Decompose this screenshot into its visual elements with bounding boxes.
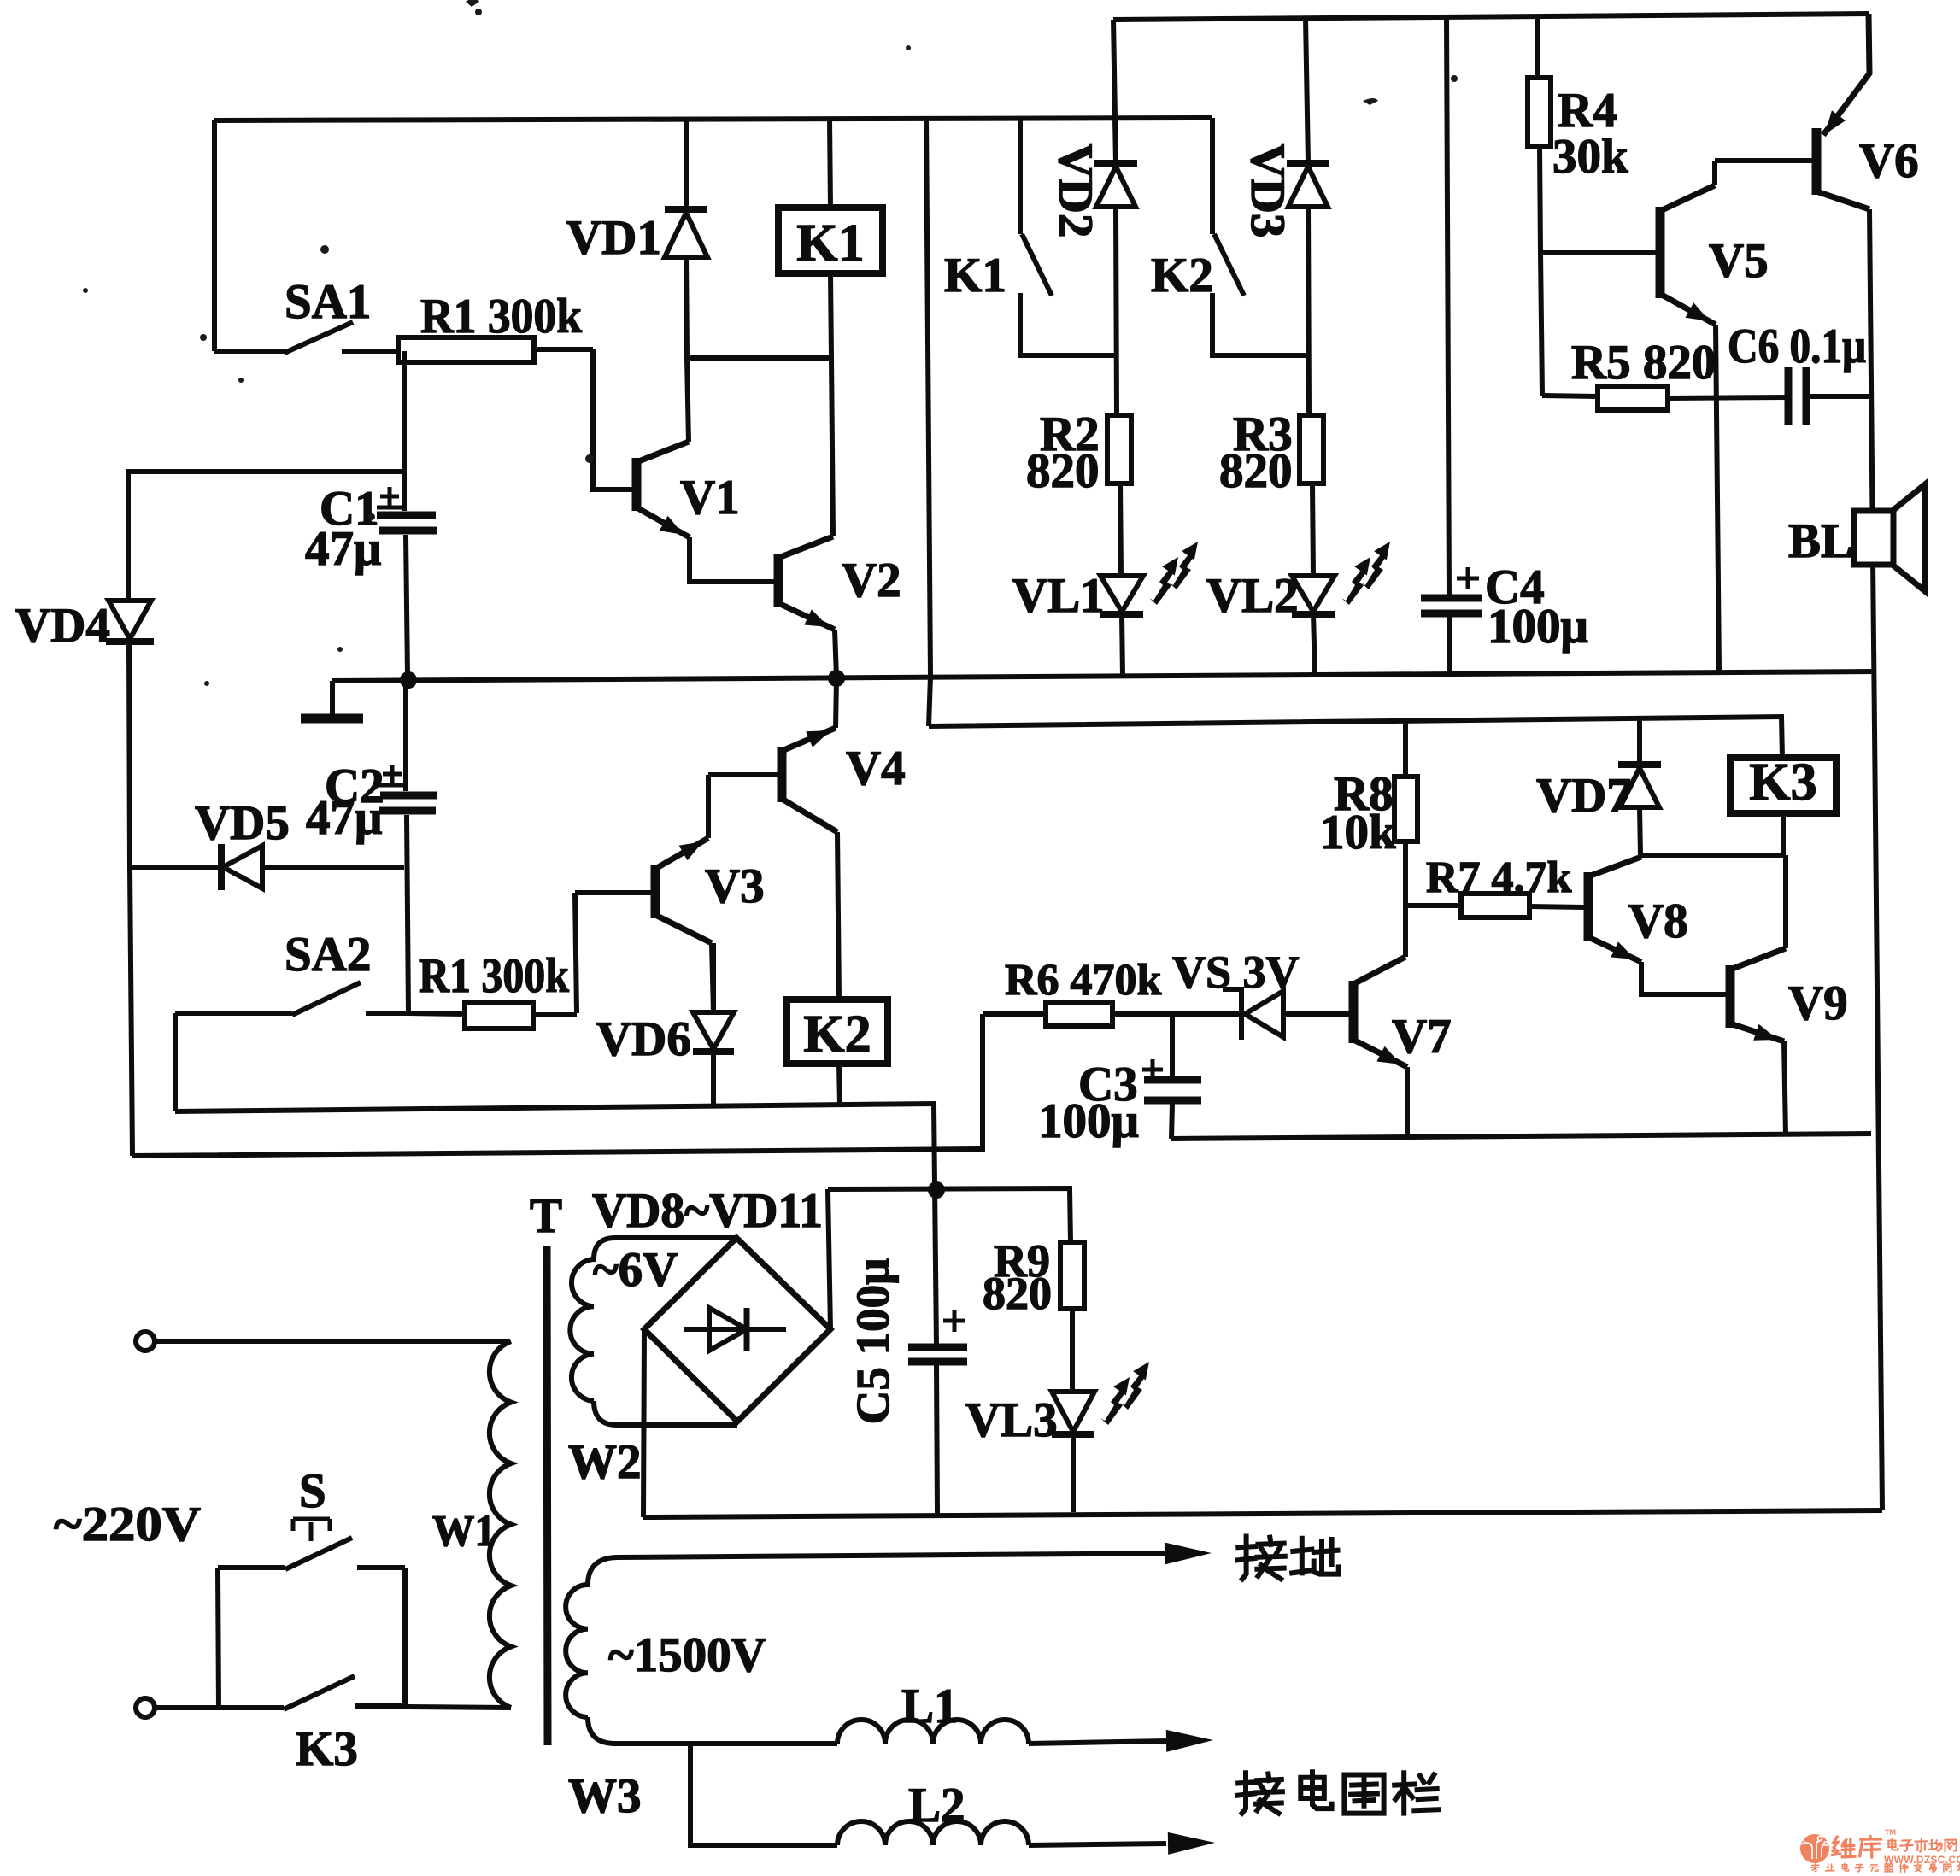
zener diode VS [1223,989,1241,1040]
capacitor C2 [380,792,437,800]
svg-text:47μ: 47μ [305,522,381,576]
wire left lower vertical [130,867,132,1156]
svg-text:R6 470k: R6 470k [1005,956,1162,1005]
capacitor C1 [377,512,436,519]
winding W2 [570,1238,736,1401]
wire R1 to V1 base [593,349,632,490]
ground symbol [330,681,335,714]
svg-text:~220V: ~220V [54,1498,201,1551]
capacitor C6 [1785,367,1793,425]
svg-text:L2: L2 [908,1779,965,1832]
wire bottom supply line [643,1510,1882,1517]
arrow L2 out [1168,1832,1215,1855]
svg-text:K2: K2 [1151,249,1213,302]
svg-text:V7: V7 [1392,1010,1452,1064]
wire V6 collector drop [1869,209,1882,1510]
svg-text:W3: W3 [568,1769,642,1823]
wire L2 branch [690,1744,837,1845]
capacitor C3 [1170,1014,1175,1080]
svg-text:C5 100μ: C5 100μ [847,1258,899,1425]
svg-text:L1: L1 [901,1680,959,1733]
svg-text:K1: K1 [944,249,1006,302]
wire S-K3 left link [218,1568,219,1708]
svg-text:~6V: ~6V [593,1243,678,1297]
switch SA1 [214,349,285,354]
LED VL1 [1100,576,1143,612]
svg-text:VD6: VD6 [596,1012,691,1066]
svg-text:100μ: 100μ [1488,600,1588,654]
capacitor C4 [1421,595,1482,602]
wire SA2 lower bracket [173,1013,178,1111]
wire VD4 branch [128,472,403,601]
diode VD4 [109,601,151,639]
transistor V6 [1812,128,1822,195]
junction dot V2 emitter bus [828,670,845,687]
diode VD6 [711,943,716,1012]
wire VD5 line [130,865,404,870]
label + (C5) [943,1310,965,1332]
wire upper rail 2 [214,118,1212,120]
svg-text:SA1: SA1 [285,275,371,329]
resistor R1 (upper) [534,347,593,352]
terminal circle lower [136,1698,155,1717]
svg-text:VS 3V: VS 3V [1172,947,1300,998]
wire VD1-K1 link [687,355,831,361]
svg-text:K3: K3 [296,1722,358,1776]
svg-text:30k: 30k [1552,130,1628,184]
switch K3 contact [219,1705,284,1710]
relay contact K2 [1210,118,1215,234]
terminal circle upper [136,1332,155,1351]
transistor V4 [778,747,787,802]
svg-text:R1 300k: R1 300k [420,290,582,343]
wire 220V lower [155,1705,284,1710]
transistor V1 [632,458,642,511]
wire outer bottom line [132,1014,983,1156]
svg-text:V9: V9 [1788,976,1848,1030]
diode VD1 [684,119,689,209]
svg-text:V6: V6 [1859,134,1919,188]
resistor R9 [1060,1242,1084,1309]
winding W3 [566,1553,1196,1717]
wire R5 branch [1540,253,1542,396]
winding W2 bottom [594,1401,737,1425]
svg-text:V3: V3 [705,859,765,913]
wire bridge left drop [643,1329,644,1517]
junction dot C1-bus [400,671,417,689]
winding W3 bottom [588,1717,837,1744]
diode VD7 [1637,718,1642,762]
wire V3 base drop [575,893,577,1013]
wire block top line [929,717,1782,758]
switch SA2 [175,1011,292,1016]
svg-text:~1500V: ~1500V [608,1628,766,1682]
transistor V8 [1584,872,1593,941]
junction dot DC rail [928,1181,945,1199]
wire V5-V6 base link [1715,158,1812,163]
wire DC rail [828,1188,1071,1242]
svg-text:V4: V4 [846,742,906,795]
LED VL2 [1292,576,1335,612]
svg-text:R5 820: R5 820 [1571,336,1716,390]
inductor L2 [837,1821,1029,1845]
svg-text:100μ: 100μ [1038,1094,1139,1148]
wire V5 emitter drop [1716,325,1719,671]
pushbutton cap S [293,1519,330,1541]
transistor V5 [1656,207,1665,298]
resistor R3 [1300,415,1323,484]
capacitor C5 [908,1344,967,1351]
wire K3 to W1 [405,1707,511,1708]
transistor V2 [774,554,783,607]
wire V8V9 collector line [1640,853,1786,858]
wire left edge vertical [212,120,217,351]
svg-text:820: 820 [1026,444,1100,498]
transformer core [547,1246,548,1745]
wire left column K contacts [926,118,930,726]
diode VD3 [1306,18,1308,163]
watermark logo [1799,1828,1960,1872]
resistor R1 (lower) [465,1002,533,1029]
svg-text:820: 820 [1219,444,1293,498]
svg-text:VD7: VD7 [1536,769,1631,823]
svg-text:47μ: 47μ [306,791,382,845]
svg-text:V1: V1 [680,471,740,525]
svg-text:T: T [530,1189,562,1243]
svg-text:BL: BL [1788,514,1853,568]
svg-text:V8: V8 [1628,894,1688,948]
svg-text:K3: K3 [1749,753,1816,812]
wire top supply rail [1113,14,1869,20]
relay coil K2 [787,1000,888,1064]
wire C5 column upper [934,1104,936,1347]
LED VL1 rays [1149,557,1178,605]
relay contact K1 [1018,119,1023,234]
svg-text:VD5: VD5 [195,796,290,850]
wire 220V upper [155,1339,510,1344]
wire bridge to DC rail [828,1189,830,1329]
wire inner bottom line [175,1104,936,1111]
svg-text:820: 820 [983,1268,1052,1319]
svg-text:R7 4.7k: R7 4.7k [1426,853,1572,902]
switch S [218,1565,285,1570]
arrow L1 out [1166,1730,1213,1752]
wire main mid bus [332,671,1876,681]
svg-text:VL3: VL3 [965,1393,1058,1447]
resistor R7 [1405,903,1461,908]
bridge rectifier VD8-VD11 [644,1238,830,1422]
wire mid vertical [1447,17,1449,598]
svg-text:VD2: VD2 [1048,144,1102,238]
speaker BL [1854,511,1893,565]
LED VL3 rays [1100,1377,1130,1425]
transistor V9 [1726,965,1735,1028]
svg-text:K2: K2 [803,1005,871,1064]
transistor V7 [1349,981,1359,1043]
transistor V3 [651,865,660,918]
svg-text:VD8~VD11: VD8~VD11 [592,1184,823,1238]
svg-text:K1: K1 [796,214,864,273]
svg-text:SA2: SA2 [285,928,371,982]
svg-text:W1: W1 [432,1507,496,1556]
wire block bottom line [1171,1134,1871,1139]
wire S-K3 right link [402,1568,408,1706]
svg-text:R1 300k: R1 300k [419,949,569,1003]
svg-text:S: S [299,1464,326,1518]
resistor R6 [983,1011,1046,1017]
svg-text:V5: V5 [1709,234,1769,288]
resistor R2 [1107,415,1131,484]
winding W1 [490,1341,511,1708]
svg-text:V2: V2 [842,554,901,607]
svg-text:VL1: VL1 [1012,569,1105,623]
label C4 + [1457,567,1479,589]
relay coil K3 [1730,758,1836,813]
resistor R4 [1535,16,1540,78]
label fence (jiediweilan) [1237,1773,1282,1813]
svg-text:VD4: VD4 [15,599,110,653]
svg-text:VD3: VD3 [1241,144,1294,238]
LED VL2 rays [1341,557,1370,605]
svg-text:10k: 10k [1320,806,1396,859]
svg-text:TM: TM [1885,1828,1896,1837]
inductor L1 [837,1720,1029,1744]
svg-text:W2: W2 [568,1435,642,1489]
relay coil K1 [778,208,883,273]
svg-text:VD1: VD1 [566,211,661,265]
diode VD5 [218,844,225,890]
arrow to earth [1165,1543,1212,1565]
svg-text:VL2: VL2 [1206,569,1299,623]
label earth (jiedi) [1237,1537,1285,1580]
diode VD2 [1113,20,1116,163]
LED VL3 [1052,1392,1094,1432]
resistor R5 [1542,396,1598,396]
resistor R8 [1403,721,1408,777]
svg-text:C6 0.1μ: C6 0.1μ [1728,320,1866,373]
